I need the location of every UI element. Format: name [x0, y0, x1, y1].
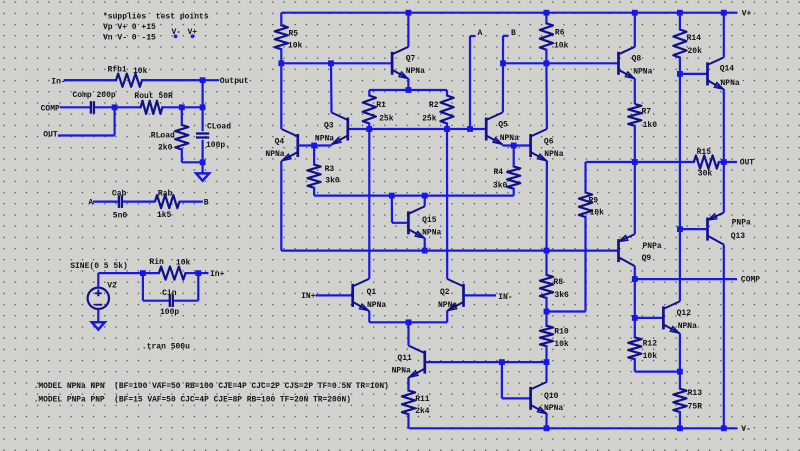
- svg-text:IN+: IN+: [301, 292, 316, 301]
- svg-text:75R: 75R: [688, 403, 703, 412]
- resistor R8: [545, 251, 547, 276]
- wire R14 node down: [679, 74, 681, 302]
- junction Output: [200, 77, 206, 83]
- wire V- rail: [409, 427, 738, 429]
- svg-text:COMP: COMP: [41, 105, 60, 114]
- svg-text:Rin: Rin: [149, 258, 164, 267]
- wire Q2 collector: [446, 129, 448, 279]
- wire Q8 collector: [634, 13, 636, 47]
- wire Q12 base: [635, 317, 664, 319]
- wire Q13 emitter: [723, 162, 725, 213]
- testpoint dot V+: [191, 34, 195, 38]
- junction comp-out: [112, 104, 118, 110]
- wire Q7 collector: [407, 13, 409, 47]
- wire Cin left: [142, 273, 144, 301]
- capacitor Cin: [169, 295, 171, 308]
- svg-text:10k: 10k: [133, 67, 148, 76]
- svg-text:Q10: Q10: [544, 392, 559, 401]
- svg-text:Q5: Q5: [498, 120, 508, 129]
- svg-text:NPNa: NPNa: [392, 366, 411, 375]
- wire R9 top corner: [586, 161, 695, 163]
- junction rail Q10: [544, 425, 550, 431]
- svg-text:B: B: [204, 199, 209, 208]
- junction R4 top: [511, 143, 517, 149]
- svg-text:R13: R13: [688, 389, 703, 398]
- wire Q6 emitter: [545, 161, 548, 251]
- svg-text:10k: 10k: [288, 41, 303, 50]
- wire Q9 emitter: [634, 162, 636, 234]
- junction R8 bottom: [544, 309, 550, 315]
- wire Q4E row y250: [281, 250, 618, 252]
- svg-text:SINE(0 5 5k): SINE(0 5 5k): [70, 262, 128, 271]
- transistor Q8: [617, 52, 620, 75]
- svg-text:OUT: OUT: [740, 159, 755, 168]
- wire Q5 collector: [502, 63, 504, 112]
- transistor Q2: [462, 284, 465, 307]
- wire V2 bottom: [97, 309, 99, 323]
- ground V2: [92, 322, 105, 329]
- svg-text:Rfb1: Rfb1: [108, 66, 127, 75]
- svg-text:5n0: 5n0: [113, 212, 128, 221]
- wire y63 right: [503, 62, 619, 64]
- svg-text:Q12: Q12: [677, 309, 692, 318]
- junction rail Q8: [632, 10, 638, 16]
- wire Rfb1 to Output: [141, 79, 219, 81]
- svg-text:100p.: 100p.: [206, 141, 230, 150]
- wire Q15 collector: [424, 196, 426, 207]
- wire Q4 collector: [280, 63, 282, 129]
- wire R14 to Q14 base: [680, 73, 708, 75]
- wire Q10 base drop: [501, 362, 503, 398]
- svg-text:3k0: 3k0: [493, 182, 508, 191]
- wire Q8 emitter: [634, 79, 636, 104]
- svg-text:NPNa: NPNa: [544, 404, 563, 413]
- svg-text:R1: R1: [376, 101, 386, 110]
- wire Q3 emitter to node: [314, 144, 331, 146]
- svg-text:Q15: Q15: [422, 216, 437, 225]
- svg-text:R6: R6: [555, 29, 565, 38]
- wire R12 bottom: [635, 371, 680, 373]
- resistor R10: [545, 312, 547, 327]
- wire In- to Rfb1: [64, 79, 117, 81]
- svg-text:20k: 20k: [688, 47, 703, 56]
- svg-text:Q7: Q7: [406, 54, 416, 63]
- svg-text:R8: R8: [553, 278, 563, 287]
- wire Q4 emitter down: [280, 162, 282, 251]
- junction Q15 base node: [389, 193, 395, 199]
- junction Q3 collector node: [328, 60, 334, 66]
- svg-text:1k5: 1k5: [157, 211, 172, 220]
- transistor Q15: [407, 211, 410, 234]
- svg-text:V+: V+: [742, 10, 752, 19]
- svg-text:A: A: [478, 29, 483, 38]
- svg-text:.MODEL NPNa NPN (BF=100 VAF=5: .MODEL NPNa NPN (BF=100 VAF=50 RB=100 CJ…: [34, 382, 389, 391]
- wire to In+ label: [198, 272, 208, 274]
- junction R2 bottom: [444, 126, 450, 132]
- transistor Q1: [351, 284, 354, 307]
- svg-text:NPNa: NPNa: [721, 79, 740, 88]
- resistor R3: [313, 146, 315, 166]
- junction OUT node: [721, 159, 727, 165]
- wire COMP row: [635, 278, 737, 280]
- junction B node: [500, 60, 506, 66]
- wire Q7 emitter: [407, 79, 409, 90]
- resistor R13: [679, 372, 681, 390]
- svg-text:NPNa: NPNa: [438, 301, 457, 310]
- transistor Q3: [346, 118, 349, 141]
- svg-text:1k0: 1k0: [643, 121, 658, 130]
- svg-text:OUT: OUT: [43, 130, 58, 139]
- junction rail Q14: [721, 10, 727, 16]
- svg-text:NPNa: NPNa: [422, 229, 441, 238]
- transistor Q6: [529, 134, 532, 157]
- svg-text:R5: R5: [289, 30, 299, 39]
- junction Q15 collector node: [422, 193, 428, 199]
- resistor R12: [634, 318, 636, 339]
- svg-text:10k: 10k: [554, 340, 569, 349]
- svg-text:Q6: Q6: [544, 138, 554, 147]
- svg-text:R10: R10: [554, 328, 569, 337]
- svg-text:R14: R14: [687, 34, 702, 43]
- svg-text:2k0: 2k0: [158, 144, 173, 153]
- wire Q3 collector: [330, 63, 333, 112]
- svg-text:R11: R11: [415, 395, 430, 404]
- transistor Q14: [706, 62, 709, 85]
- junction R7 bottom: [632, 159, 638, 165]
- wire to ground: [202, 162, 204, 173]
- junction R10 bottom: [544, 359, 550, 365]
- wire Q4 base: [298, 144, 314, 146]
- resistor R4: [513, 146, 515, 168]
- svg-text:25k: 25k: [422, 114, 437, 123]
- svg-text:Q8: Q8: [632, 54, 642, 63]
- capacitor Cab: [118, 195, 120, 208]
- svg-text:100p: 100p: [160, 308, 179, 317]
- wire Q14 emitter: [723, 89, 725, 162]
- svg-text:PNPa: PNPa: [643, 242, 662, 251]
- resistor R9: [584, 162, 586, 194]
- wire Q14 collector: [723, 13, 725, 58]
- svg-text:PNPa: PNPa: [732, 219, 751, 228]
- svg-text:In+: In+: [210, 270, 225, 279]
- svg-text:R4: R4: [494, 168, 504, 177]
- wire RLoad bottom: [182, 161, 203, 163]
- wire V2 top: [97, 273, 99, 288]
- junction R1 bottom: [366, 126, 372, 132]
- svg-text:2k4: 2k4: [415, 407, 430, 416]
- wire Q13 collector: [723, 245, 725, 429]
- svg-text:Vn V- 0 -15: Vn V- 0 -15: [103, 33, 156, 42]
- resistor Rout: [115, 106, 142, 108]
- resistor RLoad: [181, 107, 183, 126]
- svg-text:R3: R3: [325, 165, 335, 174]
- resistor R7: [628, 104, 641, 126]
- svg-text:A: A: [88, 199, 93, 208]
- resistor R11: [407, 378, 409, 392]
- svg-text:NPNa: NPNa: [406, 67, 425, 76]
- transistor Q4: [296, 134, 299, 157]
- wire Cin right: [173, 300, 198, 302]
- svg-text:10k: 10k: [176, 259, 191, 268]
- svg-text:NPNa: NPNa: [367, 301, 386, 310]
- junction Q12 base node: [632, 315, 638, 321]
- svg-text:V2: V2: [107, 282, 117, 291]
- svg-text:Rout 50R: Rout 50R: [134, 92, 173, 101]
- svg-text:RLoad: RLoad: [151, 132, 175, 141]
- svg-text:In-: In-: [51, 78, 65, 87]
- wire base row y129: [348, 128, 486, 130]
- wire Q9C to Q12 base node: [634, 279, 636, 318]
- wire R1R2 top: [369, 89, 447, 91]
- svg-text:NPNa: NPNa: [544, 150, 563, 159]
- wire OUT up: [113, 107, 115, 135]
- junction Q7 emitter: [406, 87, 412, 93]
- svg-text:NPNa: NPNa: [500, 134, 519, 143]
- junction R6 bottom: [544, 60, 550, 66]
- wire R9 bottom: [547, 310, 586, 312]
- wire Q9 collector: [634, 266, 636, 279]
- resistor Rfb1: [64, 79, 117, 81]
- junction Rout-RLoad: [179, 104, 185, 110]
- resistor Rab: [123, 201, 156, 203]
- wire Rout to CLoad node: [182, 106, 203, 108]
- svg-text:IN-: IN-: [498, 293, 512, 302]
- svg-text:3k6: 3k6: [554, 291, 569, 300]
- svg-text:10k: 10k: [590, 208, 605, 217]
- junction Rin-Cin left: [140, 270, 146, 276]
- svg-text:B: B: [511, 29, 516, 38]
- svg-text:Q3: Q3: [324, 121, 334, 130]
- node B flag: [502, 36, 504, 64]
- svg-text:*supplies test points: *supplies test points: [103, 13, 209, 22]
- svg-text:Comp 200p: Comp 200p: [73, 91, 116, 100]
- svg-text:Q9: Q9: [642, 254, 652, 263]
- wire Q15 emitter: [424, 238, 426, 250]
- resistor Rin: [143, 272, 160, 274]
- svg-text:10k: 10k: [554, 41, 569, 50]
- resistor R2: [446, 90, 448, 97]
- wire COMP to Comp cap: [60, 106, 91, 108]
- svg-text:Q14: Q14: [720, 64, 735, 73]
- testpoint dot V-: [174, 34, 178, 38]
- transistor Q10: [529, 387, 532, 410]
- node A flag: [469, 36, 471, 129]
- junction rail R13: [677, 425, 683, 431]
- svg-text:R9: R9: [589, 196, 599, 205]
- svg-text:3k0: 3k0: [325, 176, 340, 185]
- junction Rin-Cin right: [195, 270, 201, 276]
- svg-text:R12: R12: [643, 340, 658, 349]
- wire Q5 emitter to R4: [501, 145, 503, 146]
- wire Q11 base row: [425, 361, 547, 363]
- ground: [196, 173, 209, 180]
- resistor R1: [368, 90, 370, 97]
- transistor Q7: [391, 52, 394, 75]
- svg-text:R7: R7: [642, 108, 652, 117]
- wire Q1 collector: [368, 129, 370, 279]
- junction R5 bottom: [278, 60, 284, 66]
- junction node A bottom: [467, 126, 473, 132]
- resistor R6: [545, 13, 547, 25]
- svg-text:Q2: Q2: [440, 288, 450, 297]
- transistor Q13 PNP: [706, 218, 709, 241]
- junction emitter node: [406, 319, 412, 325]
- wire Q10 collector: [545, 362, 547, 382]
- wire Comp cap to junction: [95, 106, 115, 108]
- wire Q11 emitter: [407, 378, 409, 392]
- transistor Q5: [485, 118, 488, 141]
- svg-text:Cin: Cin: [162, 289, 177, 298]
- wire IN+ to Q1: [316, 294, 353, 296]
- svg-text:Q1: Q1: [367, 288, 377, 297]
- wire OUT: [58, 134, 115, 136]
- wire Q1 emitter: [368, 311, 370, 322]
- voltage source V2: [88, 288, 109, 309]
- capacitor Comp: [90, 101, 92, 114]
- svg-text:30k: 30k: [698, 169, 713, 178]
- svg-text:Q13: Q13: [731, 232, 746, 241]
- svg-text:Cab: Cab: [112, 189, 127, 198]
- junction rail Q7: [406, 10, 412, 16]
- junction gnd node: [200, 159, 206, 165]
- wire Q2 emitter: [446, 311, 448, 322]
- svg-text:Rab: Rab: [158, 189, 173, 198]
- transistor Q9 PNP: [617, 239, 620, 262]
- wire Output down: [202, 80, 204, 107]
- svg-text:NPNa: NPNa: [633, 68, 652, 77]
- svg-text:NPNa: NPNa: [315, 135, 334, 144]
- transistor Q12: [662, 306, 665, 329]
- wire y195 row: [314, 195, 514, 197]
- svg-text:NPNa: NPNa: [265, 150, 284, 159]
- svg-text:R15: R15: [697, 148, 712, 157]
- resistor R14: [679, 13, 681, 31]
- svg-text:NPNa: NPNa: [678, 322, 697, 331]
- wire A to Cab: [93, 201, 119, 203]
- svg-text:R2: R2: [429, 101, 439, 110]
- wire y63 left: [281, 62, 392, 64]
- wire V+ rail: [281, 12, 737, 14]
- svg-text:COMP: COMP: [741, 276, 760, 285]
- svg-text:Q11: Q11: [397, 354, 412, 363]
- wire Q6 collector: [545, 63, 548, 129]
- junction rail R6: [544, 10, 550, 16]
- junction R13 top: [677, 369, 683, 375]
- svg-text:10k: 10k: [643, 352, 658, 361]
- junction CLoad top: [200, 104, 206, 110]
- wire Q10 emitter: [545, 414, 547, 428]
- transistor Q11: [423, 351, 426, 374]
- junction Q13 base node: [677, 226, 683, 232]
- svg-text:25k: 25k: [379, 114, 394, 123]
- wire Q12 emitter: [679, 333, 681, 371]
- junction R8 top: [544, 248, 550, 254]
- resistor R15: [694, 155, 719, 168]
- wire Q15 base: [392, 222, 408, 224]
- junction R14 bottom: [677, 71, 683, 77]
- svg-text:V-: V-: [741, 425, 751, 434]
- junction rail R14: [677, 10, 683, 16]
- svg-text:.tran 500u: .tran 500u: [142, 342, 190, 351]
- svg-text:CLoad: CLoad: [207, 123, 231, 132]
- junction Q15 emitter node: [422, 248, 428, 254]
- svg-text:.MODEL PNPa PNP (BF=15 VAF=50: .MODEL PNPa PNP (BF=15 VAF=50 CJC=4P CJE…: [34, 396, 351, 405]
- wire Q11 collector: [407, 322, 409, 345]
- svg-text:Q4: Q4: [275, 138, 285, 147]
- junction rail Q13: [721, 425, 727, 431]
- wire Q2 base to IN-: [464, 294, 497, 296]
- junction COMP node: [632, 276, 638, 282]
- capacitor CLoad: [202, 107, 204, 131]
- svg-text:Vp V+ 0 +15: Vp V+ 0 +15: [103, 23, 156, 32]
- junction R3 top: [311, 143, 317, 149]
- resistor R5: [280, 13, 282, 27]
- wire Q13 base: [680, 228, 708, 230]
- svg-text:Output: Output: [220, 77, 249, 86]
- junction Q10 base node: [499, 359, 505, 365]
